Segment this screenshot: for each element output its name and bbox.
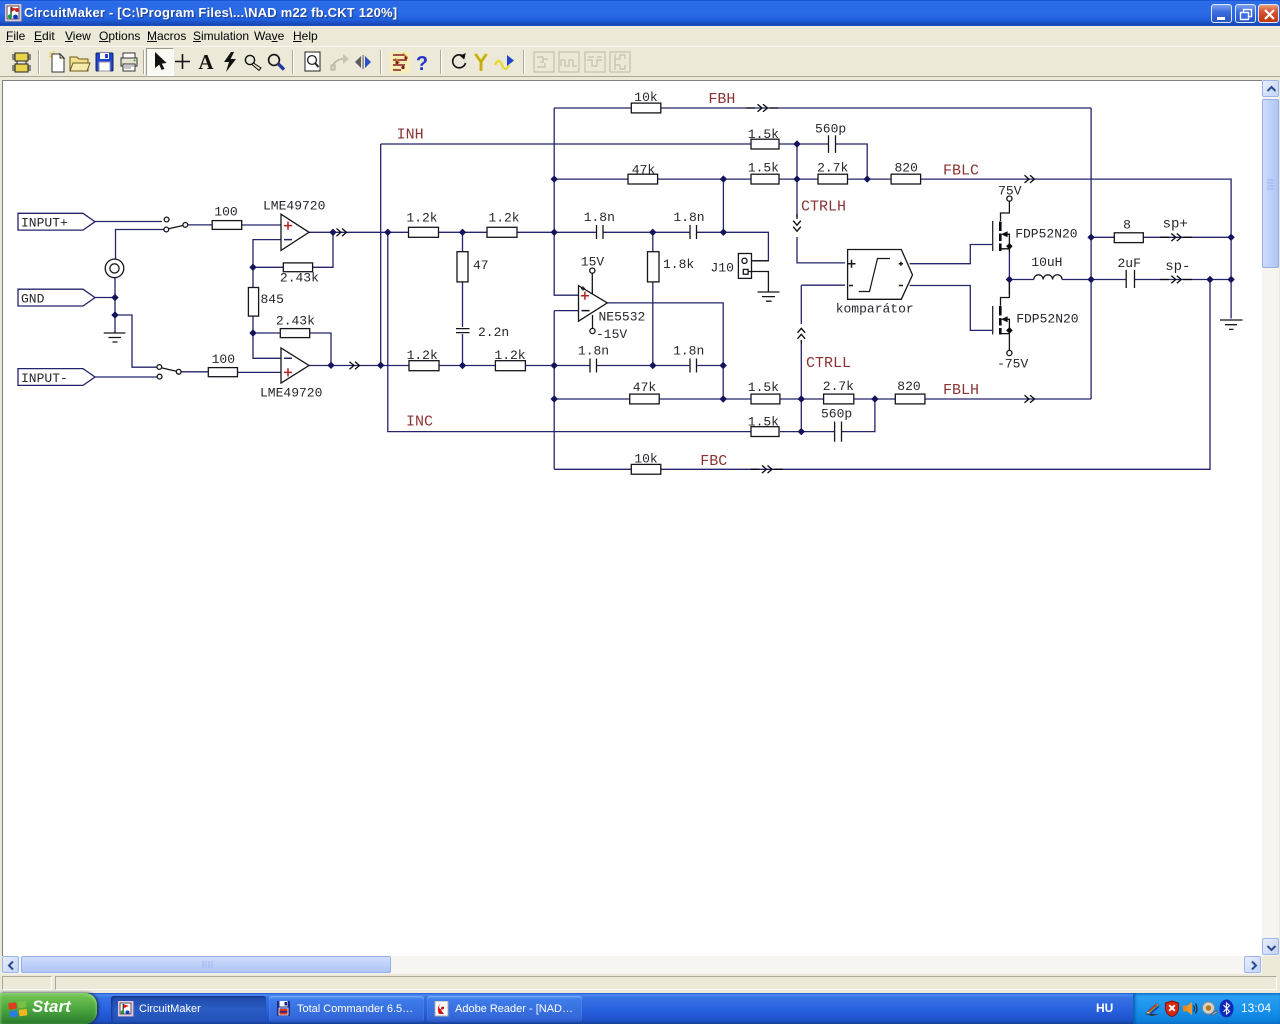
svg-text:560p: 560p — [821, 407, 852, 422]
svg-text:1.5k: 1.5k — [748, 380, 779, 395]
svg-text:J10: J10 — [711, 260, 734, 275]
svg-text:?: ? — [416, 53, 428, 75]
svg-text:47: 47 — [473, 258, 489, 273]
svg-text:820: 820 — [894, 161, 917, 176]
svg-text:-15V: -15V — [596, 327, 627, 342]
svg-text:NE5532: NE5532 — [599, 310, 646, 325]
svg-text:FDP52N20: FDP52N20 — [1015, 226, 1077, 241]
svg-text:CTRLH: CTRLH — [801, 198, 846, 215]
svg-text:10uH: 10uH — [1031, 255, 1062, 270]
svg-text:1.5k: 1.5k — [748, 161, 779, 176]
svg-text:820: 820 — [897, 379, 920, 394]
svg-text:2.2n: 2.2n — [478, 325, 509, 340]
svg-text:2uF: 2uF — [1117, 256, 1140, 271]
svg-text:LME49720: LME49720 — [260, 386, 322, 401]
svg-text:sp-: sp- — [1165, 259, 1190, 275]
svg-text:1.2k: 1.2k — [406, 211, 437, 226]
svg-text:1.2k: 1.2k — [407, 348, 438, 363]
svg-text:1.2k: 1.2k — [488, 211, 519, 226]
svg-text:FBH: FBH — [708, 91, 735, 108]
svg-text:A: A — [198, 51, 214, 74]
svg-text:LME49720: LME49720 — [263, 199, 325, 214]
svg-text:100: 100 — [214, 205, 237, 220]
svg-text:1.8n: 1.8n — [578, 344, 609, 359]
svg-text:1.8n: 1.8n — [584, 210, 615, 225]
svg-text:FBLC: FBLC — [943, 163, 979, 180]
svg-text:INPUT+: INPUT+ — [21, 216, 68, 231]
svg-text:75V: 75V — [998, 184, 1022, 199]
svg-text:CTRLL: CTRLL — [806, 355, 851, 372]
svg-text:2.43k: 2.43k — [276, 313, 315, 328]
svg-text:-75V: -75V — [997, 356, 1028, 371]
svg-text:47k: 47k — [633, 380, 657, 395]
svg-text:10k: 10k — [634, 451, 658, 466]
svg-text:100: 100 — [212, 352, 235, 367]
svg-text:1.8k: 1.8k — [663, 257, 694, 272]
svg-text:560p: 560p — [815, 121, 846, 136]
svg-text:FDP52N20: FDP52N20 — [1016, 311, 1078, 326]
svg-text:INPUT-: INPUT- — [21, 371, 68, 386]
svg-text:FBC: FBC — [700, 453, 727, 470]
svg-text:GND: GND — [21, 292, 45, 307]
svg-text:komparátor: komparátor — [836, 302, 914, 317]
svg-text:1.8n: 1.8n — [673, 344, 704, 359]
svg-text:15V: 15V — [581, 254, 605, 269]
svg-text:10k: 10k — [634, 90, 658, 105]
svg-text:1.8n: 1.8n — [673, 210, 704, 225]
svg-text:1.2k: 1.2k — [494, 348, 525, 363]
svg-text:2.7k: 2.7k — [823, 379, 854, 394]
svg-text:1.5k: 1.5k — [748, 415, 779, 430]
svg-text:2.43k: 2.43k — [280, 270, 319, 285]
svg-text:8: 8 — [1123, 218, 1131, 233]
svg-text:INC: INC — [406, 414, 433, 431]
svg-text:845: 845 — [261, 292, 284, 307]
svg-text:1.5k: 1.5k — [748, 127, 779, 142]
svg-text:INH: INH — [397, 127, 424, 144]
svg-text:sp+: sp+ — [1163, 217, 1188, 233]
svg-text:47k: 47k — [632, 162, 656, 177]
svg-text:2.7k: 2.7k — [817, 161, 848, 176]
svg-text:FBLH: FBLH — [943, 382, 979, 399]
